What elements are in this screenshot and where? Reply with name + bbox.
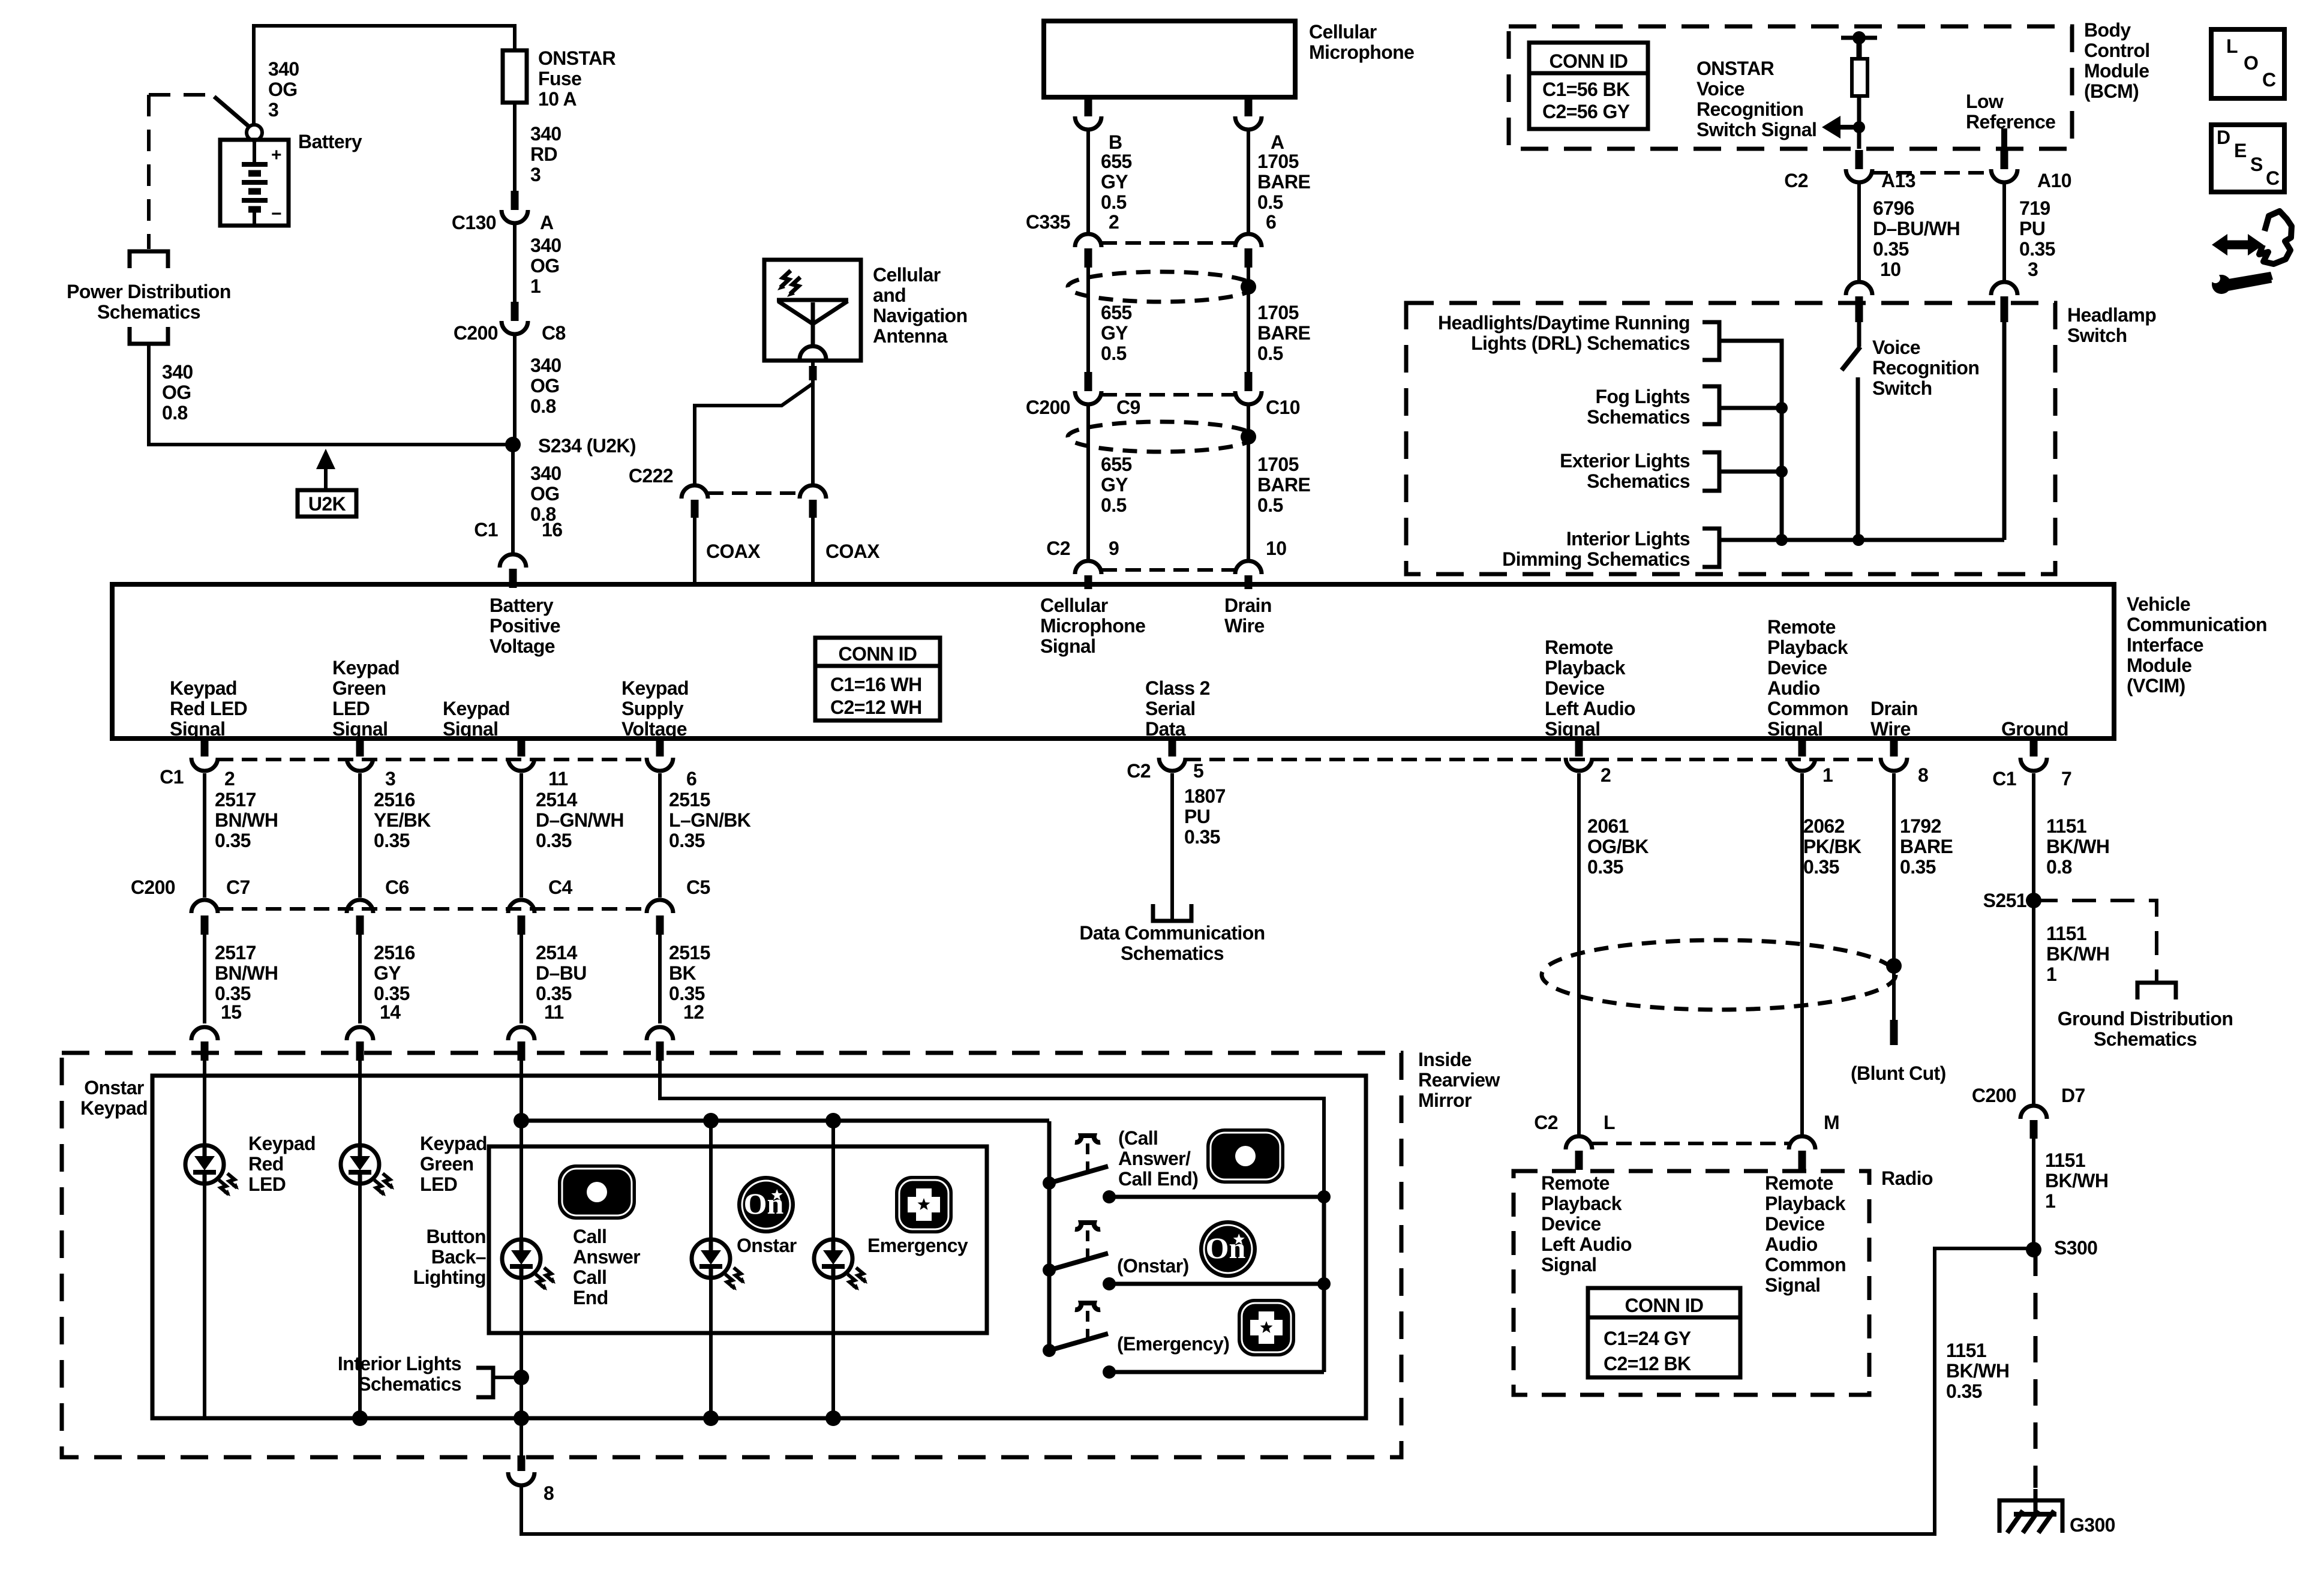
VCIM CONN ID table xyxy=(815,638,940,721)
svg-text:Battery: Battery xyxy=(298,131,362,152)
connector C2 9 into VCIM xyxy=(1075,561,1101,574)
U2K box xyxy=(298,490,356,517)
radio CONN ID table xyxy=(1588,1288,1740,1377)
wire A10 low reference through box xyxy=(2002,322,2007,540)
svg-text:L: L xyxy=(1604,1112,1615,1133)
wire A10 down xyxy=(2002,184,2006,280)
wire interior lights branch xyxy=(493,1376,521,1379)
svg-text:10: 10 xyxy=(1266,538,1286,559)
svg-text:M: M xyxy=(1824,1112,1839,1133)
svg-text:D: D xyxy=(2217,127,2230,148)
svg-text:6: 6 xyxy=(1266,211,1276,233)
wire fuse to C130 xyxy=(513,103,517,191)
node call answer led return xyxy=(514,1410,529,1426)
wire keypad col1 xyxy=(203,773,206,897)
svg-text:S251: S251 xyxy=(1983,890,2026,911)
cellular microphone box xyxy=(1044,21,1295,97)
svg-text:2: 2 xyxy=(224,768,235,789)
bracket fog lights xyxy=(1703,386,1719,424)
switch emergency output xyxy=(1103,1365,1116,1379)
antenna lightning marks xyxy=(780,271,800,294)
connector C200 keypad x869 xyxy=(508,900,535,913)
LED keypad red xyxy=(185,1145,239,1196)
icon emergency switch xyxy=(1238,1299,1295,1356)
wire BCM connector dashed link xyxy=(1872,171,1991,175)
svg-text:C1: C1 xyxy=(474,519,498,541)
connector C2 A13 xyxy=(1855,150,1863,169)
svg-text:B: B xyxy=(1109,131,1122,153)
svg-text:(Onstar): (Onstar) xyxy=(1117,1255,1189,1277)
wire audio common signal xyxy=(1800,773,1804,1134)
resistor in BCM xyxy=(1857,38,1862,59)
connector A13 into headlamp switch xyxy=(1846,282,1872,295)
svg-text:C2: C2 xyxy=(1784,170,1808,191)
node battery positive terminal xyxy=(247,125,262,140)
svg-text:15: 15 xyxy=(221,1001,241,1023)
shield ellipse lower xyxy=(1068,422,1254,452)
off-page connector power distribution lower xyxy=(130,327,168,344)
voice recognition switch lower wire xyxy=(1856,377,1860,540)
connector C335 row B2 xyxy=(1075,234,1101,247)
svg-text:BatteryPositiveVoltage: BatteryPositiveVoltage xyxy=(490,595,560,657)
connector VCIM bottom pin x2632 xyxy=(1575,740,1583,757)
node green led return xyxy=(352,1410,368,1426)
connector C200 keypad x341 xyxy=(191,900,218,913)
svg-text:C335: C335 xyxy=(1026,211,1070,233)
node S251 xyxy=(2026,893,2041,908)
wire C2 mic dashed link xyxy=(1101,568,1235,572)
svg-text:S: S xyxy=(2250,154,2263,175)
wire red led down xyxy=(203,1184,206,1418)
headlamp switch dashed box xyxy=(1406,303,2055,574)
svg-text:COAX: COAX xyxy=(706,541,761,562)
node S300 xyxy=(2026,1242,2041,1257)
switch blade emergency xyxy=(1043,1344,1056,1357)
svg-text:C200: C200 xyxy=(131,876,175,898)
connector C335 row A6 xyxy=(1235,234,1262,247)
svg-text:L: L xyxy=(2226,35,2238,57)
svg-text:C200: C200 xyxy=(1972,1085,2016,1106)
svg-text:(Blunt Cut): (Blunt Cut) xyxy=(1851,1062,1946,1084)
connector VCIM bottom pin x3157 xyxy=(1890,740,1898,757)
U2K arrow xyxy=(316,449,335,469)
svg-text:2: 2 xyxy=(1601,764,1611,786)
svg-text:D7: D7 xyxy=(2061,1085,2085,1106)
svg-text:2: 2 xyxy=(1109,211,1119,233)
wire C10 down xyxy=(1247,406,1250,559)
node emergency led return xyxy=(825,1410,841,1426)
connector C1 16 into VCIM xyxy=(500,554,526,568)
icon onstar backlight xyxy=(737,1176,795,1233)
svg-text:A10: A10 xyxy=(2037,170,2071,191)
wire C222 dashed link xyxy=(708,491,800,495)
svg-text:3: 3 xyxy=(2028,259,2038,280)
connector VCIM bottom pin x600 xyxy=(356,740,364,757)
connector mic pin B xyxy=(1085,97,1092,116)
svg-text:−: − xyxy=(271,204,281,224)
node onstar led return xyxy=(703,1410,719,1426)
wire col2 into keypad xyxy=(358,1061,362,1146)
wire left audio signal xyxy=(1577,773,1581,1134)
connector keypad pin row x869 xyxy=(508,1027,535,1040)
wire col3 lower xyxy=(520,935,523,1023)
svg-text:C1=56 BKC2=56 GY: C1=56 BKC2=56 GY xyxy=(1542,79,1630,122)
wire dashed feed to battery xyxy=(149,93,207,97)
connector keypad pin 8 xyxy=(518,1455,526,1471)
wire battery top loop xyxy=(254,26,515,124)
service logo xyxy=(2211,211,2292,294)
BCM internal supply bar xyxy=(1841,36,1877,40)
radio dashed box xyxy=(1514,1171,1869,1395)
connector VCIM bottom pin x3390 xyxy=(2030,740,2038,757)
svg-text:OnstarKeypad: OnstarKeypad xyxy=(80,1077,148,1119)
svg-text:CONN ID: CONN ID xyxy=(839,643,917,665)
wire S300 dashed to G300 xyxy=(2034,1250,2038,1488)
svg-text:C2: C2 xyxy=(1127,760,1151,782)
svg-text:C1: C1 xyxy=(160,766,184,788)
BCM CONN ID table xyxy=(1529,43,1648,129)
connector C200 C8 xyxy=(511,302,519,321)
svg-text:(Emergency): (Emergency) xyxy=(1117,1333,1229,1355)
svg-text:C8: C8 xyxy=(542,322,566,344)
connector C200 keypad x600 xyxy=(347,900,373,913)
svg-text:9: 9 xyxy=(1109,538,1119,559)
wire D7 to S300 xyxy=(2032,1139,2035,1250)
node onstar led bus xyxy=(703,1113,719,1128)
svg-text:+: + xyxy=(271,145,281,165)
shield ellipse audio xyxy=(1542,940,1896,1010)
svg-text:S234 (U2K): S234 (U2K) xyxy=(538,435,636,457)
wire col1 into keypad xyxy=(203,1061,206,1146)
wire coax right into VCIM xyxy=(811,518,815,587)
wire antenna branch diagonal xyxy=(695,384,812,484)
wire C200 mic dashed link xyxy=(1101,393,1235,397)
wire dashed connector row C2 right xyxy=(1185,758,1881,761)
node shield to drain audio xyxy=(1886,958,1902,974)
wire col2 lower xyxy=(358,935,362,1023)
svg-text:O: O xyxy=(2244,52,2258,74)
wire green led down xyxy=(358,1184,362,1418)
wire C200 to S234 xyxy=(513,335,517,445)
wire col3 into keypad xyxy=(520,1061,523,1239)
node shield to drain upper xyxy=(1241,279,1256,295)
wire into G300 xyxy=(2034,1489,2038,1514)
wire ground from VCIM xyxy=(2032,773,2035,1104)
LED emergency backlight xyxy=(814,1239,867,1290)
connector C200 C9 xyxy=(1085,372,1092,391)
connector A10 into headlamp switch xyxy=(1991,282,2017,295)
switch collector rail xyxy=(1322,1197,1326,1372)
shield ellipse upper xyxy=(1068,272,1254,302)
switch blade onstar xyxy=(1043,1263,1056,1277)
node shield to drain lower xyxy=(1241,429,1256,445)
svg-text:Headlights/Daytime RunningLigh: Headlights/Daytime RunningLights (DRL) S… xyxy=(1438,312,1690,354)
svg-text:CONN ID: CONN ID xyxy=(1625,1295,1704,1316)
wire col4 into keypad xyxy=(660,1061,1324,1197)
svg-text:8: 8 xyxy=(544,1482,554,1504)
node S234 splice xyxy=(505,437,521,452)
connector row C200 keypad xyxy=(218,907,647,911)
LED call answer backlight xyxy=(502,1239,556,1290)
antenna symbol xyxy=(777,298,848,302)
svg-text:C7: C7 xyxy=(226,876,250,898)
LED onstar backlight xyxy=(692,1239,745,1290)
node emergency led bus xyxy=(825,1113,841,1128)
svg-text:G300: G300 xyxy=(2070,1514,2115,1536)
svg-text:Fog LightsSchematics: Fog LightsSchematics xyxy=(1587,386,1690,428)
arrow voice recognition switch signal xyxy=(1822,116,1840,139)
connector C200 keypad x1100 xyxy=(647,900,673,913)
wire exterior to rail xyxy=(1719,470,1782,474)
svg-text:C5: C5 xyxy=(686,876,710,898)
connector VCIM bottom pin x341 xyxy=(201,740,209,757)
svg-text:S300: S300 xyxy=(2054,1237,2097,1259)
connector VCIM bottom pin x869 xyxy=(518,740,526,757)
svg-text:C2: C2 xyxy=(1046,538,1070,559)
connector VCIM bottom pin x1100 xyxy=(656,740,664,757)
wire drain to blunt cut xyxy=(1892,773,1896,1020)
svg-text:C4: C4 xyxy=(548,876,573,898)
wire A to C200 row xyxy=(1247,268,1250,372)
connector C2 10 into VCIM xyxy=(1235,561,1262,574)
voice recognition switch blade xyxy=(1842,347,1860,370)
connector C200 C10 xyxy=(1245,372,1253,391)
switch call answer output xyxy=(1103,1190,1116,1203)
icon onstar switch xyxy=(1199,1220,1257,1278)
wire emergency backlight xyxy=(831,1121,835,1239)
switch onstar output xyxy=(1103,1277,1116,1290)
off-page bracket data communication xyxy=(1153,904,1191,921)
svg-text:Onstar: Onstar xyxy=(737,1235,797,1256)
wire S234 to C1 16 xyxy=(511,445,515,553)
wire coax left into VCIM xyxy=(693,518,696,587)
keypad signal bus xyxy=(521,1119,1049,1123)
wire col3 below box xyxy=(520,1418,523,1455)
svg-text:5: 5 xyxy=(1193,760,1203,782)
wire C130 to C200 xyxy=(513,224,517,302)
momentary button emergency xyxy=(1075,1303,1100,1310)
svg-text:C6: C6 xyxy=(385,876,409,898)
connector VCIM bottom pin x3004 xyxy=(1798,740,1806,757)
connector keypad pin row x341 xyxy=(191,1027,218,1040)
switch blade call answer xyxy=(1043,1176,1056,1190)
svg-text:Ground: Ground xyxy=(2001,718,2068,740)
wire col4 lower xyxy=(658,935,662,1023)
wire mic A to C335 xyxy=(1247,131,1250,232)
svg-text:Emergency: Emergency xyxy=(867,1235,968,1256)
BCM low reference pin stub xyxy=(2001,128,2007,149)
svg-text:C2: C2 xyxy=(1534,1112,1558,1133)
button backlight box xyxy=(489,1146,987,1333)
bracket interior lights dimming xyxy=(1703,529,1719,567)
svg-text:COAX: COAX xyxy=(825,541,880,562)
wire class2 serial data xyxy=(1170,773,1174,921)
node col3 bus xyxy=(514,1113,529,1128)
ground G300 xyxy=(1999,1500,2062,1533)
svg-text:1: 1 xyxy=(1822,764,1833,786)
svg-text:11: 11 xyxy=(544,1001,564,1023)
connector keypad pin row x1100 xyxy=(647,1027,673,1040)
wire C335 dashed link xyxy=(1101,241,1235,245)
svg-text:8: 8 xyxy=(1918,764,1928,786)
switch supply rail xyxy=(1047,1121,1052,1350)
svg-text:C: C xyxy=(2262,69,2276,91)
connector C222 left xyxy=(681,485,708,499)
svg-text:A13: A13 xyxy=(1881,170,1915,191)
svg-text:11: 11 xyxy=(548,768,568,789)
svg-text:C200: C200 xyxy=(1026,397,1070,418)
off-page connector power distribution xyxy=(130,251,168,268)
wire col1 lower xyxy=(203,935,206,1023)
svg-text:E: E xyxy=(2234,140,2247,161)
svg-text:C: C xyxy=(2266,167,2280,189)
wire keypad col4 xyxy=(658,773,662,897)
connector C2 A10 xyxy=(2001,150,2008,169)
bracket interior lights keypad xyxy=(476,1368,493,1397)
svg-text:A: A xyxy=(540,212,554,233)
fuse ONSTAR Fuse 10A xyxy=(503,50,527,103)
icon emergency backlight xyxy=(895,1176,953,1233)
connector C130 pin A xyxy=(511,191,519,210)
bracket exterior lights xyxy=(1703,452,1719,491)
off-page bracket ground distribution xyxy=(2137,983,2176,999)
connector C2 M radio xyxy=(1789,1136,1815,1149)
connector keypad pin row x600 xyxy=(347,1027,373,1040)
svg-text:C200: C200 xyxy=(454,322,498,344)
svg-text:14: 14 xyxy=(380,1001,401,1023)
connector C200 D7 xyxy=(2020,1106,2047,1119)
BCM dashed box xyxy=(1509,26,2072,149)
wire fog to rail xyxy=(1719,406,1782,410)
wire dashed connector row C1 keypad xyxy=(218,758,647,761)
svg-text:C9: C9 xyxy=(1116,397,1140,418)
svg-text:KeypadSupplyVoltage: KeypadSupplyVoltage xyxy=(621,677,689,740)
connector VCIM bottom pin x1954 xyxy=(1169,740,1176,757)
wire call answer led down xyxy=(520,1278,523,1418)
svg-text:A: A xyxy=(1271,131,1284,153)
DESC box xyxy=(2211,125,2284,192)
wire C9 down xyxy=(1086,406,1090,559)
svg-text:7: 7 xyxy=(2061,768,2071,789)
wire antenna lead xyxy=(811,361,815,366)
keypad inner box xyxy=(152,1076,1366,1418)
wire keypad ground return bus xyxy=(521,1248,2034,1534)
LOC box xyxy=(2211,29,2284,98)
wire radio connector dashed link xyxy=(1592,1142,1789,1145)
voice recognition switch wire upper xyxy=(1857,322,1861,347)
wire keypad col3 xyxy=(520,773,523,897)
svg-text:CONN ID: CONN ID xyxy=(1550,50,1628,72)
connector C2 L radio xyxy=(1566,1136,1592,1149)
connector mic pin A xyxy=(1245,97,1253,116)
wire switch diagonal to battery terminal xyxy=(214,97,248,126)
wire keypad col2 xyxy=(358,773,362,897)
antenna box Cellular and Navigation Antenna xyxy=(764,260,861,361)
wire B to C200 row xyxy=(1086,268,1090,372)
VCIM module box xyxy=(112,584,2114,739)
wire DRL to rail xyxy=(1719,341,1782,540)
svg-text:C130: C130 xyxy=(452,212,496,233)
wire onstar backlight xyxy=(709,1121,713,1239)
icon call answer backlight xyxy=(558,1164,636,1220)
wire interior dimming line xyxy=(1719,538,2004,542)
svg-text:U2K: U2K xyxy=(308,493,346,515)
wire power distribution to S234 xyxy=(149,344,513,445)
battery B1 xyxy=(220,140,289,226)
momentary button onstar xyxy=(1075,1223,1100,1229)
blunt cut stub xyxy=(1890,1020,1898,1045)
connector C222 right xyxy=(800,485,826,499)
momentary button call answer xyxy=(1075,1136,1100,1142)
svg-text:6: 6 xyxy=(686,768,696,789)
svg-text:3: 3 xyxy=(385,768,395,789)
wire mic B to C335 xyxy=(1086,131,1090,232)
svg-text:C1: C1 xyxy=(1992,768,2016,789)
wire S251 dashed branch xyxy=(2034,900,2157,983)
svg-text:Radio: Radio xyxy=(1881,1167,1933,1189)
svg-text:C10: C10 xyxy=(1266,397,1300,418)
svg-text:12: 12 xyxy=(683,1001,704,1023)
svg-text:10: 10 xyxy=(1880,259,1900,280)
svg-text:16: 16 xyxy=(542,519,562,541)
svg-text:C222: C222 xyxy=(629,465,673,487)
wire A13 down xyxy=(1857,184,1861,280)
LED keypad green xyxy=(341,1145,394,1196)
bracket DRL xyxy=(1703,322,1719,360)
inside rearview mirror dashed box xyxy=(62,1053,1401,1457)
icon call answer switch xyxy=(1206,1128,1284,1184)
